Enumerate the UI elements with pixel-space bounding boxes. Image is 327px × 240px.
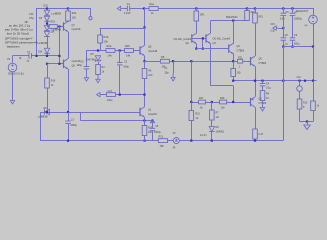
capacitor C5 plates [150, 128, 156, 130]
diode D7 [45, 109, 50, 114]
svg-text:1N4001: 1N4001 [216, 131, 225, 134]
wire input column upper [144, 8, 146, 28]
svg-text:14k: 14k [126, 54, 131, 58]
resistor R17 body [199, 100, 206, 104]
svg-text:100µ: 100µ [107, 99, 113, 102]
wire R1b to mid bus [100, 43, 102, 50]
wire R3 to flag [98, 74, 100, 76]
svg-text:R21: R21 [238, 56, 243, 59]
junction capbus left [282, 46, 284, 48]
junction fb95-q1col [143, 94, 145, 96]
wire q6 bus b [206, 102, 220, 104]
wire capA mid [283, 16, 285, 38]
resistor Rb1 body [194, 11, 199, 21]
wire Q2Q3 base link [192, 38, 207, 40]
junction out-load [298, 80, 300, 82]
svg-text:C10: C10 [29, 13, 34, 16]
wire Q1 emitter [144, 117, 146, 121]
svg-text:LmBE4B: LmBE4B [52, 28, 62, 31]
wire Q6 emitter up [255, 81, 257, 97]
svg-text:44.7m: 44.7m [200, 134, 207, 137]
junction input column mid [143, 26, 145, 28]
junction collector link mid [232, 20, 234, 22]
resistor R10 body [297, 99, 302, 109]
wire V3 top stub [12, 56, 14, 64]
wire zobel top [262, 81, 264, 84]
net flag V- b [84, 73, 88, 81]
junction comp node [172, 60, 174, 62]
junction fb-mirror column [190, 60, 192, 62]
capacitor C2 plates [117, 63, 123, 65]
wire Q8 base line [47, 63, 64, 65]
junction nfb-q8 [67, 111, 69, 113]
wire VAS emitter lower [144, 79, 146, 95]
junction input-left drop [35, 55, 37, 57]
net flag comp [171, 73, 175, 81]
resistor R11 body [311, 101, 316, 111]
junction capbus mid [291, 46, 293, 48]
wire mid bus c [134, 50, 141, 52]
junction Q5 emitter node [143, 60, 145, 62]
wire Q4 collector [233, 21, 235, 44]
svg-text:100: 100 [221, 106, 226, 109]
wire diode chain mid [47, 21, 49, 25]
diode D2 [209, 127, 214, 132]
svg-text:R16: R16 [51, 79, 56, 82]
svg-text:D10: D10 [44, 5, 49, 8]
transistor Q5 [140, 45, 145, 55]
wire mid bus b [115, 50, 125, 52]
net flag V3 return [10, 96, 14, 104]
net flag fb2 [273, 26, 279, 30]
wire R11 down [313, 111, 315, 122]
svg-text:10000µ: 10000µ [294, 18, 303, 21]
junction fb95-c2 [119, 94, 121, 96]
junction q6 bus mid [211, 101, 213, 103]
junction out-driver [254, 80, 256, 82]
svg-text:100µ: 100µ [77, 64, 83, 67]
junction input node [143, 7, 145, 9]
junction Q2 emitter node [195, 48, 197, 50]
svg-text:OO-03L_Cordell: OO-03L_Cordell [213, 37, 231, 40]
svg-text:1Ω: 1Ω [216, 116, 219, 119]
net flag V- a [96, 75, 100, 83]
diode D12 [44, 26, 49, 31]
polarity marks V3 [19, 57, 21, 59]
resistor R16 body [45, 78, 50, 88]
wire mid bus a [87, 50, 107, 52]
junction westbus-Q1e [143, 120, 145, 122]
svg-text:R13: R13 [159, 136, 164, 139]
wire R16 top [47, 64, 49, 78]
wire q6 bus c [227, 102, 251, 104]
wire comp stem [173, 61, 175, 73]
net flag fb [97, 92, 103, 96]
wire capB upper [292, 8, 294, 13]
wire R16 bottom [47, 88, 49, 112]
wire R12 stub [191, 102, 193, 111]
diode D14 [44, 48, 49, 53]
junction rail-capA [282, 7, 284, 9]
svg-text:14k: 14k [108, 54, 113, 58]
wire Q3 emitter [210, 44, 212, 86]
wire load bottom join [300, 121, 314, 123]
wire cap bus [283, 46, 313, 48]
svg-text:R18: R18 [220, 97, 225, 100]
capacitor C6 plates [281, 13, 287, 15]
wire diode chain lower [47, 37, 49, 49]
transistor Q5b driver [251, 56, 256, 66]
svg-text:C15: C15 [271, 24, 276, 26]
wire top rail long [158, 8, 313, 10]
wire V3 bottom stub [12, 72, 14, 96]
svg-text:OTB06: OTB06 [237, 50, 245, 53]
junction south-mirror [190, 140, 192, 142]
wire C5 top [152, 121, 154, 129]
capacitor C3 plates [65, 121, 71, 123]
svg-text:Rload=8.07: Rload=8.07 [296, 10, 309, 13]
svg-text:R5: R5 [161, 55, 165, 59]
wire V4 bottom [313, 24, 315, 47]
junction rail-diode chain [46, 7, 48, 9]
junction input-base column [58, 55, 60, 57]
svg-text:SINE(0 0.5 1k): SINE(0 0.5 1k) [8, 72, 24, 75]
svg-text:0.47: 0.47 [259, 133, 264, 136]
resistor R4 body [260, 91, 265, 101]
resistor R6 body [142, 69, 147, 79]
svg-text:3300µ: 3300µ [70, 124, 77, 127]
wire flag to capA col [278, 28, 283, 30]
wire C2 top [119, 51, 121, 63]
resistor R12 body [189, 111, 194, 121]
resistor R16b body [231, 69, 236, 77]
wire bias L horizontal [196, 48, 203, 50]
wire Q2 emitter stub [196, 44, 198, 49]
wire In to C1 [123, 8, 128, 10]
wire input column to Q5 [144, 28, 146, 46]
wire nfb west drop [40, 112, 42, 141]
resistor R2a body [106, 49, 115, 53]
resistor R5 body [160, 59, 169, 63]
voltage source V3 [8, 63, 17, 72]
wire gnd stem [307, 122, 309, 125]
wire capA upper [283, 8, 285, 13]
diode D13 [44, 32, 49, 37]
wire Q3 emitter elbow [211, 85, 234, 87]
net flag out sense [150, 119, 154, 127]
svg-text:LmBE4B: LmBE4B [52, 12, 62, 15]
svg-text:640µ: 640µ [124, 66, 130, 69]
wire zobel mid [262, 86, 264, 91]
svg-text:600µ: 600µ [294, 42, 300, 45]
wire Q3 collector [210, 21, 212, 34]
wire input line [13, 55, 30, 57]
resistor R21 body [238, 59, 243, 63]
open terminal circle [89, 17, 92, 20]
resistor R13 body [158, 139, 167, 143]
junction diode chain tap [46, 22, 48, 24]
junction out-capcol [282, 80, 284, 82]
wire south bus b [168, 140, 174, 142]
resistor R19 body [49, 25, 57, 29]
wire R19 to base node [57, 26, 63, 28]
svg-text:0R1: 0R1 [258, 16, 263, 19]
resistor R1b body [98, 35, 103, 43]
wire collector link [211, 20, 248, 22]
junction q8base-col [58, 63, 60, 65]
svg-text:782: 782 [160, 145, 165, 148]
junction mid bus zener [97, 49, 99, 51]
svg-text:0.1µ: 0.1µ [266, 87, 271, 90]
junction rail-ballast1 [195, 7, 197, 9]
wire C3 top [68, 112, 70, 121]
wire west bus [81, 120, 153, 122]
wire R1b corner down [100, 28, 102, 35]
capacitor C7b plates [290, 13, 296, 15]
wire C7 to base column [31, 55, 59, 57]
diode D10 [44, 10, 49, 15]
junction v4-outbus [312, 80, 314, 82]
wire VAS emitter upper [144, 61, 146, 68]
wire south bus a [145, 140, 159, 142]
wire south bus west [40, 140, 145, 142]
ground load [304, 125, 310, 130]
junction q6 bus right [232, 101, 234, 103]
wire D2 to south bus [211, 132, 213, 141]
resistor R20 body [66, 11, 71, 21]
wire R16b to out bus [233, 77, 235, 81]
current meter V6 [297, 86, 303, 92]
svg-text:R20: R20 [72, 12, 77, 15]
capacitor C1 [127, 6, 129, 12]
svg-text:10k: 10k [104, 39, 109, 43]
junction out-zobel [261, 80, 263, 82]
wire mid link [100, 28, 145, 30]
wire fb95 b [116, 94, 145, 96]
junction south-d2 [211, 140, 213, 142]
wire nfb corner col [80, 112, 82, 121]
wire mirror column upper [191, 61, 193, 102]
wire diode chain bottom [47, 53, 49, 55]
transistor Q8 [64, 59, 69, 69]
junction v4-capbus [312, 46, 314, 48]
svg-text:R1b: R1b [104, 35, 109, 39]
wire zener to R3 [98, 62, 100, 65]
svg-text:LmBE4B: LmBE4B [38, 116, 48, 119]
svg-text:.backanno: .backanno [6, 44, 20, 48]
wire fb95 a [102, 94, 107, 96]
wire mid bus west corner [86, 51, 88, 67]
svg-text:Q5: Q5 [148, 45, 152, 49]
wire R20 top stub [68, 8, 70, 11]
wire ballast2 stub [247, 8, 249, 11]
wire R10 down [299, 109, 301, 122]
svg-text:Out: Out [297, 75, 301, 79]
svg-text:OTB06: OTB06 [259, 62, 267, 65]
wire left drop from rail [36, 8, 38, 56]
svg-text:0.5µ: 0.5µ [29, 17, 34, 20]
wire R19 left stub [47, 26, 49, 28]
voltage source V4 [309, 15, 318, 24]
capacitor C8b plates [281, 38, 287, 40]
svg-text:LmBU4B: LmBU4B [38, 42, 48, 45]
diode D11 [44, 16, 49, 21]
wire Q1 collector [144, 95, 146, 107]
port flag In [117, 6, 123, 10]
svg-text:R17: R17 [199, 97, 204, 100]
junction nfb-R16 [46, 111, 48, 113]
wire output bus [233, 80, 316, 82]
voltage source V5 [173, 138, 179, 144]
junction rail-R20 [67, 7, 69, 9]
wire top-left rail [36, 8, 91, 10]
wire Q4 base feed [203, 48, 229, 50]
resistor R22 body [253, 129, 258, 139]
junction rail-ballast3 [254, 7, 256, 9]
svg-text:0R1: 0R1 [200, 14, 205, 17]
wire capB mid [292, 16, 294, 38]
transistor Q2 bias servo [192, 33, 197, 43]
wire ballast3 stub [255, 8, 257, 13]
svg-text:mpsA18: mpsA18 [148, 50, 158, 53]
wire meter to R10 [299, 91, 301, 99]
junction westbus-cap [151, 120, 153, 122]
wire rail right stub [90, 8, 92, 17]
junction gnd tap [306, 120, 308, 122]
wire capA long down [283, 47, 285, 141]
wire fb line a [145, 61, 161, 63]
wire q6 bus a [191, 102, 198, 104]
wire ballast3 to Q5 collector [255, 23, 257, 56]
wire R11 upper stub [313, 81, 315, 101]
capacitor C8 plates [84, 67, 90, 69]
wire ballast1 stub [196, 8, 198, 11]
wire R12 to south bus [191, 121, 193, 141]
svg-text:3.3µ: 3.3µ [270, 31, 275, 33]
junction base link [202, 37, 204, 39]
wire capA lower [283, 40, 285, 46]
junction mid bus cap [119, 49, 121, 51]
resistor R3 body [96, 65, 101, 75]
wire R15 bottom [144, 136, 146, 141]
wire C2 bottom [119, 65, 121, 95]
wire R21 to Q5 base [243, 61, 251, 63]
wire Q4 emitter stub [233, 53, 235, 61]
wire C5 bottom [152, 131, 154, 141]
wire base node down [59, 27, 61, 64]
wire south bus c [179, 140, 283, 142]
svg-text:MJE15032: MJE15032 [226, 16, 238, 19]
transistor Q1 [140, 107, 145, 117]
wire R22 to south bus [255, 139, 257, 141]
wire fb line b [169, 61, 237, 63]
svg-text:R1a: R1a [150, 3, 155, 6]
wire R20 to Q7 collector [68, 20, 70, 23]
svg-text:33p: 33p [165, 72, 170, 75]
svg-text:1000µ: 1000µ [154, 131, 161, 134]
wire R7 stub [211, 102, 213, 110]
wire C3 bottom [68, 123, 70, 140]
capacitor C9 plates [290, 38, 296, 40]
wire nfb line [40, 112, 140, 114]
resistor R1a body [149, 7, 158, 11]
svg-text:1N4734A: 1N4734A [86, 59, 96, 62]
wire capB lower [292, 40, 294, 46]
wire Q8 emitter down [68, 69, 70, 112]
resistor R2b body [125, 49, 134, 53]
junction rail-capB [291, 7, 293, 9]
svg-text:R10: R10 [303, 102, 308, 105]
svg-text:C13: C13 [108, 90, 113, 93]
junction southwest-c3 [67, 140, 69, 142]
resistor R8 body [107, 93, 116, 97]
junction bias L tee [202, 48, 204, 50]
svg-text:R2a: R2a [107, 44, 112, 48]
junction south-R15 [143, 140, 145, 142]
capacitor C7 [29, 53, 31, 59]
svg-text:OO-03L_Cordell: OO-03L_Cordell [174, 38, 192, 41]
resistor Rb3 body [253, 13, 258, 23]
junction input-diode chain [46, 55, 48, 57]
wire Q7 emitter to Q8 [68, 32, 70, 59]
junction out-predriver [232, 80, 234, 82]
transistor Q7 [64, 21, 69, 31]
svg-text:R12: R12 [196, 113, 201, 116]
wire Q6 collector down [255, 107, 257, 129]
wire R7 to D2 [211, 120, 213, 127]
zener D5 [95, 56, 100, 62]
wire elbow down [233, 86, 235, 102]
svg-text:R19: R19 [51, 21, 56, 24]
transistor Q3 [206, 33, 211, 43]
junction base node [58, 25, 60, 27]
resistor R7 body [210, 110, 215, 120]
wire bias L vertical [202, 38, 204, 48]
wire Q4 emitter resistor top [233, 61, 235, 68]
resistor R15 body [142, 126, 147, 136]
junction rail-ballast2 [246, 7, 248, 9]
junction q8base-r16 [46, 63, 48, 65]
wire rail corner down [313, 8, 315, 15]
resistor Rb2 body [245, 11, 250, 21]
svg-text:mpsA18: mpsA18 [148, 113, 157, 116]
wire R15 top [144, 121, 146, 126]
wire Rb1 to Q2 [196, 21, 198, 33]
junction capA-flag [282, 27, 284, 29]
transistor Q4 [229, 43, 234, 53]
svg-text:2.2mF: 2.2mF [124, 12, 131, 15]
resistor R18 body [220, 100, 227, 104]
junction mirror-q6bus [190, 101, 192, 103]
capacitor C4 plates [260, 84, 266, 86]
net flag zobel gnd [260, 103, 264, 111]
wire C8 to flag [86, 69, 88, 73]
transistor Q6 [251, 97, 256, 107]
junction Q4 emitter node [232, 60, 234, 62]
wire load col upper [299, 81, 301, 86]
junction out-v4col [304, 80, 306, 82]
svg-text:100: 100 [148, 74, 153, 77]
wire zobel lower [262, 101, 264, 104]
svg-text:.four 1k 20 V(out): .four 1k 20 V(out) [6, 31, 29, 35]
wire v4 col down [313, 47, 315, 81]
svg-text:100: 100 [237, 72, 242, 75]
svg-text:mpsA18: mpsA18 [72, 28, 81, 31]
wire C1 to junction [130, 8, 149, 10]
svg-text:6.8µ: 6.8µ [280, 18, 285, 21]
svg-text:D14: D14 [38, 51, 43, 54]
wire Q5 emitter [144, 56, 146, 62]
